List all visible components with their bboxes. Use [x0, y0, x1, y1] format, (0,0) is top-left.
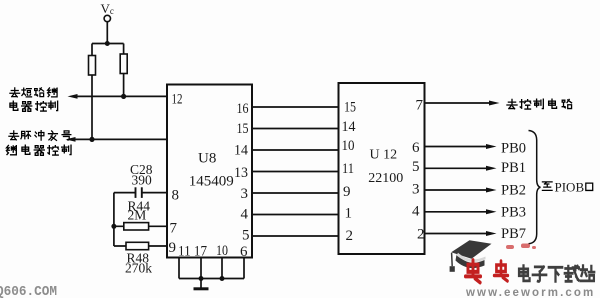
svg-text:16: 16: [237, 101, 249, 117]
svg-text:10: 10: [216, 243, 228, 259]
svg-text:www.eeworm.com: www.eeworm.com: [465, 287, 595, 298]
svg-text:5: 5: [412, 159, 420, 175]
svg-text:8: 8: [172, 188, 180, 204]
svg-text:6: 6: [412, 140, 420, 156]
svg-text:11 17: 11 17: [178, 244, 207, 260]
svg-text:13: 13: [234, 165, 248, 181]
svg-text:PB0: PB0: [501, 140, 526, 156]
svg-text:4: 4: [412, 204, 420, 220]
svg-text:Vc: Vc: [101, 1, 114, 16]
svg-text:PB2: PB2: [501, 182, 526, 198]
svg-text:270k: 270k: [125, 261, 152, 276]
svg-text:Q606.COM: Q606.COM: [0, 284, 57, 298]
svg-text:9: 9: [343, 184, 351, 200]
svg-text:11: 11: [342, 161, 354, 177]
svg-text:12: 12: [172, 92, 183, 108]
svg-text:U 12: U 12: [370, 148, 398, 163]
svg-text:PB7: PB7: [501, 226, 526, 242]
svg-text:10: 10: [342, 138, 355, 154]
svg-text:9: 9: [169, 240, 177, 256]
svg-text:15: 15: [344, 100, 356, 116]
svg-text:3: 3: [241, 186, 249, 202]
svg-text:22100: 22100: [368, 171, 403, 186]
svg-text:15: 15: [237, 121, 249, 137]
svg-text:2M: 2M: [128, 208, 147, 223]
svg-text:PB1: PB1: [501, 160, 526, 176]
svg-text:5: 5: [242, 228, 250, 244]
svg-text:2: 2: [417, 227, 425, 243]
svg-text:14: 14: [234, 143, 248, 159]
svg-text:6: 6: [240, 244, 248, 260]
svg-text:1: 1: [345, 206, 353, 222]
svg-text:3: 3: [412, 182, 420, 198]
svg-text:7: 7: [416, 98, 424, 114]
svg-text:390: 390: [132, 173, 153, 188]
svg-text:145409: 145409: [189, 174, 234, 190]
svg-text:PIOB: PIOB: [555, 180, 585, 195]
svg-text:7: 7: [170, 221, 178, 237]
svg-text:PB3: PB3: [501, 205, 526, 221]
svg-text:14: 14: [342, 119, 356, 135]
svg-text:4: 4: [241, 207, 249, 223]
svg-text:U8: U8: [198, 151, 216, 167]
svg-text:2: 2: [346, 228, 354, 244]
